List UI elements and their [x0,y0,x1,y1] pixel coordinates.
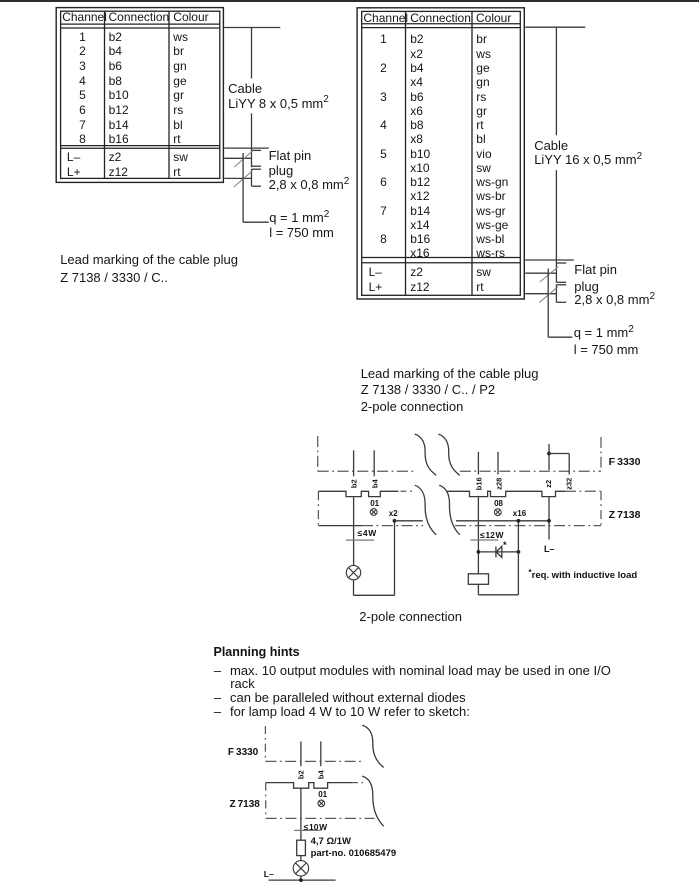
L- rail wire (sketch) [269,879,336,881]
label pin b2 (sketch) [298,771,306,780]
label q lead left [269,211,329,225]
right table rows [362,33,405,45]
relay coil K1 [468,574,488,585]
label pin b4 (sketch) [318,771,326,780]
label 01 (sketch) [318,791,327,799]
wire diode branch [478,551,518,553]
label resistor value [311,837,351,847]
label pin z32 [566,478,574,490]
wire output b2 down (sketch) [300,788,302,840]
left table inner border [61,11,220,178]
heading Planning hints [214,646,300,659]
label Cable LiYY 16 right [534,139,568,152]
left lead marking text [60,253,238,266]
wire relay bottom loop [477,584,479,595]
left table L separator [61,145,220,147]
break squiggle pair (F3330 row) [415,434,436,475]
left table rows [61,31,104,43]
cut slash marks left [234,151,253,167]
right table L separator [362,257,521,259]
wire cable vertical right [555,27,557,135]
wire output channel 1 (b2 down) [353,497,355,566]
bullet 3 [214,705,221,718]
right table column lines [405,11,407,295]
left table header underline [61,23,220,25]
Z7138 bottom boundary (sketch) [266,817,375,819]
node z2/z32 bridge junction [547,452,551,456]
diode V1 freewheeling [495,546,497,557]
wire resistor to lamp [300,856,302,861]
cut slash marks right [540,267,559,283]
wire cable vertical left [251,28,253,79]
flat pin bracket left [251,169,253,186]
label L- (schematic 1) [544,545,555,554]
indicator lamp 01 (sketch) [318,800,325,807]
Z7138 module top boundary with connector notches [318,491,398,496]
Z7138 module right edge [600,491,602,525]
wire q lead right [547,269,549,338]
wire lead 2 right [525,272,556,274]
resistor R 4,7 ohm [297,840,306,855]
note req. with inductive load [529,571,638,581]
pin z2 stub with L- feed [548,444,550,470]
node diode right junction [517,550,521,554]
label 4W [358,529,377,538]
right table inner border [362,11,521,295]
pin b4 stub (F3330) [373,450,375,476]
label L- (sketch) [264,870,274,879]
wire lamp bottom loop [353,580,355,596]
wire cable top left [224,27,280,29]
label pin b2 [351,480,359,489]
right table L rows [369,266,382,278]
Z7138 module bottom boundary [318,525,362,527]
wire x16 return line [456,520,549,522]
label Cable LiYY 8 left [228,82,262,95]
indicator lamp 08 [494,509,501,516]
wire L- lead right [525,259,574,261]
label x16 [513,510,526,518]
wire q lead left [242,153,244,222]
right table outer border [357,8,524,299]
pin b16 stub (F3330) [477,452,479,475]
right table header underline [362,23,521,25]
break squiggle pair (Z7138 row) [415,485,436,535]
right lead marking text [361,367,539,380]
pin b4 stub (sketch) [320,742,322,767]
label 08 [494,500,503,508]
label flat pin plug right [574,263,617,276]
wire L+ lead right [525,293,556,295]
wire L- lead left [224,147,269,149]
bullet 2 [214,691,221,704]
label pin z28 [495,478,503,490]
wire output channel 8 (b16 down) [477,496,479,574]
flat pin bracket right [555,285,557,303]
pin z28 stub (F3330) [497,452,499,475]
left table L rows [67,151,80,163]
node x16 junction [517,519,521,523]
Z7138 module left edge [317,491,319,525]
lamp load E1 [346,565,360,579]
wire cable top right [525,26,585,28]
wire z2 L- down [548,496,550,539]
label Z 7138 [609,510,641,521]
right table header text [363,12,408,24]
indicator lamp 01 [370,509,377,516]
label F 3330 [609,457,641,468]
label pin z2 [545,480,553,488]
label pin b16 [476,477,484,490]
left table header text [62,11,107,23]
Z7138 left edge (sketch) [265,783,267,819]
wire lead 2 left [224,157,251,159]
node z2/x16 junction [547,519,551,523]
left table column lines [104,11,106,178]
wire x2 return to break [395,520,423,522]
bullet 1 [214,664,221,677]
wire lamp to L- rail [300,876,302,880]
left table outer border [56,8,223,183]
break squiggle (Z7138 sketch) [362,776,384,826]
load tick 10W [294,829,322,831]
diode note asterisk [503,541,507,550]
top rule [0,0,699,2]
label F 3330 (sketch) [228,748,258,758]
label 01 [370,500,379,508]
F3330 module boundary (schematic 1) [317,436,319,471]
wire z2 to z32 bridge [549,453,569,455]
load tick 4W [346,539,374,541]
break squiggle (F3330 sketch) [362,725,384,767]
label q lead right [574,326,634,340]
label flat pin plug left [269,149,312,162]
wire L+ lead left [224,177,251,179]
Z7138 top boundary with notches (sketch) [266,783,352,789]
label 10W (sketch) [304,823,328,832]
node x2 junction [393,519,397,523]
node diode left junction [477,550,481,554]
label x2 [389,510,398,518]
pin b2 stub (F3330) [353,450,355,476]
pin b2 stub (sketch) [300,742,302,767]
label Z 7138 (sketch) [230,800,260,810]
node L- junction (sketch) [299,878,303,882]
label 12W [480,531,504,540]
caption 2-pole connection [359,610,462,623]
F3330 boundary (sketch) [264,726,266,761]
lamp load (sketch) [293,861,308,876]
label pin b4 [371,480,379,489]
load tick 12W [471,539,499,541]
